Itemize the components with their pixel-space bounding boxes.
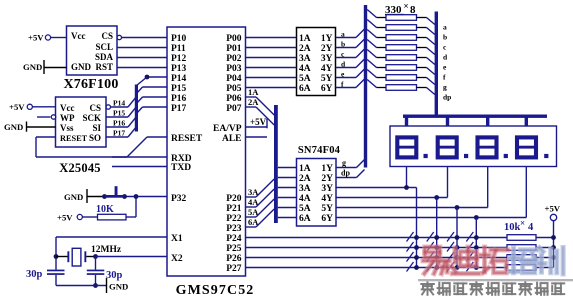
svg-text:P27: P27 bbox=[226, 264, 242, 274]
svg-text:GMS97C52: GMS97C52 bbox=[176, 283, 255, 298]
svg-text:+5V: +5V bbox=[57, 213, 73, 223]
svg-text:4Y: 4Y bbox=[321, 194, 333, 204]
svg-text:GND: GND bbox=[4, 122, 23, 132]
svg-text:CS: CS bbox=[89, 103, 101, 113]
svg-text:P14: P14 bbox=[113, 99, 125, 108]
svg-text:P25: P25 bbox=[226, 244, 242, 254]
svg-text:SCK: SCK bbox=[82, 113, 101, 123]
svg-text:P10: P10 bbox=[171, 34, 187, 44]
svg-text:SI: SI bbox=[92, 123, 101, 133]
svg-text:P12: P12 bbox=[171, 54, 187, 64]
svg-text:P16: P16 bbox=[113, 119, 125, 128]
svg-text:30p: 30p bbox=[106, 270, 123, 281]
svg-text:P16: P16 bbox=[171, 94, 187, 104]
svg-text:X25045: X25045 bbox=[59, 161, 100, 175]
svg-text:P22: P22 bbox=[226, 214, 242, 224]
svg-text:4: 4 bbox=[528, 222, 534, 233]
svg-text:P03: P03 bbox=[226, 64, 242, 74]
svg-text:10k: 10k bbox=[504, 222, 521, 233]
svg-text:Vss: Vss bbox=[60, 123, 74, 133]
svg-text:3A: 3A bbox=[299, 184, 311, 194]
svg-text:+5V: +5V bbox=[9, 102, 25, 112]
svg-text:4A: 4A bbox=[299, 194, 311, 204]
svg-text:6A: 6A bbox=[299, 84, 311, 94]
svg-text:P32: P32 bbox=[171, 194, 187, 204]
svg-text:g: g bbox=[342, 159, 346, 168]
svg-text:GND: GND bbox=[64, 192, 83, 202]
svg-text:5Y: 5Y bbox=[321, 74, 333, 84]
svg-text:5A: 5A bbox=[299, 204, 311, 214]
svg-text:P02: P02 bbox=[226, 54, 242, 64]
svg-text:b: b bbox=[341, 40, 345, 49]
svg-text:6Y: 6Y bbox=[321, 214, 333, 224]
svg-text:Vcc: Vcc bbox=[71, 31, 86, 41]
svg-text:P13: P13 bbox=[171, 64, 187, 74]
svg-text:2Y: 2Y bbox=[321, 174, 333, 184]
svg-text:a: a bbox=[443, 23, 447, 32]
svg-text:+5V: +5V bbox=[250, 117, 267, 127]
svg-text:P11: P11 bbox=[171, 44, 186, 54]
svg-text:CS: CS bbox=[101, 31, 113, 41]
svg-text:dp: dp bbox=[443, 93, 451, 102]
svg-text:3A: 3A bbox=[299, 54, 311, 64]
svg-text:2A: 2A bbox=[299, 44, 311, 54]
svg-text:RST: RST bbox=[95, 62, 113, 72]
svg-text:Vcc: Vcc bbox=[60, 103, 75, 113]
svg-text:X1: X1 bbox=[171, 234, 183, 244]
svg-text:SO: SO bbox=[89, 133, 101, 143]
svg-text:P04: P04 bbox=[226, 74, 242, 84]
svg-text:P00: P00 bbox=[226, 34, 242, 44]
svg-text:WP: WP bbox=[60, 113, 75, 123]
svg-text:1A: 1A bbox=[299, 34, 311, 44]
svg-text:P01: P01 bbox=[226, 44, 242, 54]
svg-text:+5V: +5V bbox=[545, 204, 561, 214]
svg-text:P14: P14 bbox=[171, 74, 187, 84]
svg-text:EA/VP: EA/VP bbox=[213, 124, 242, 134]
svg-text:4Y: 4Y bbox=[321, 64, 333, 74]
svg-text:3Y: 3Y bbox=[321, 184, 333, 194]
svg-text:+5V: +5V bbox=[28, 33, 44, 43]
svg-text:×: × bbox=[520, 218, 525, 228]
svg-text:1A: 1A bbox=[299, 164, 311, 174]
svg-text:2Y: 2Y bbox=[321, 44, 333, 54]
svg-text:X76F100: X76F100 bbox=[63, 77, 118, 92]
svg-text:GND: GND bbox=[23, 62, 42, 72]
svg-text:1Y: 1Y bbox=[321, 34, 333, 44]
svg-text:g: g bbox=[443, 83, 447, 92]
svg-text:RESET: RESET bbox=[60, 134, 88, 143]
svg-text:P20: P20 bbox=[226, 194, 242, 204]
svg-text:3Y: 3Y bbox=[321, 54, 333, 64]
svg-text:6A: 6A bbox=[299, 214, 311, 224]
svg-text:RESET: RESET bbox=[171, 134, 203, 144]
svg-text:5A: 5A bbox=[299, 74, 311, 84]
svg-text:4A: 4A bbox=[299, 64, 311, 74]
svg-text:10K: 10K bbox=[96, 204, 114, 215]
svg-text:TXD: TXD bbox=[171, 163, 191, 173]
svg-text:SCL: SCL bbox=[95, 42, 113, 52]
svg-text:5Y: 5Y bbox=[321, 204, 333, 214]
svg-text:P07: P07 bbox=[226, 104, 242, 114]
svg-text:dp: dp bbox=[341, 169, 350, 178]
svg-text:1A: 1A bbox=[248, 87, 259, 97]
svg-text:SDA: SDA bbox=[95, 52, 114, 62]
svg-text:P06: P06 bbox=[226, 94, 242, 104]
svg-text:P15: P15 bbox=[113, 109, 125, 118]
svg-text:SN74F04: SN74F04 bbox=[298, 145, 341, 156]
svg-text:2A: 2A bbox=[248, 97, 259, 107]
svg-text:P05: P05 bbox=[226, 84, 242, 94]
svg-text:P17: P17 bbox=[171, 104, 187, 114]
svg-text:P26: P26 bbox=[226, 254, 242, 264]
svg-text:a: a bbox=[341, 30, 345, 39]
svg-text:P15: P15 bbox=[171, 84, 187, 94]
svg-text:P21: P21 bbox=[226, 204, 242, 214]
svg-text:b: b bbox=[443, 33, 447, 42]
svg-text:30p: 30p bbox=[26, 269, 43, 280]
svg-text:12MHz: 12MHz bbox=[91, 245, 122, 255]
svg-text:GND: GND bbox=[71, 62, 92, 72]
svg-text:GND: GND bbox=[109, 282, 128, 292]
svg-text:1Y: 1Y bbox=[321, 164, 333, 174]
svg-text:X2: X2 bbox=[171, 254, 183, 264]
svg-text:P17: P17 bbox=[113, 129, 125, 138]
svg-text:P24: P24 bbox=[226, 234, 242, 244]
svg-text:6Y: 6Y bbox=[321, 84, 333, 94]
svg-text:2A: 2A bbox=[299, 174, 311, 184]
svg-text:×: × bbox=[404, 1, 409, 11]
svg-text:ALE: ALE bbox=[222, 134, 242, 144]
svg-text:P23: P23 bbox=[226, 224, 242, 234]
